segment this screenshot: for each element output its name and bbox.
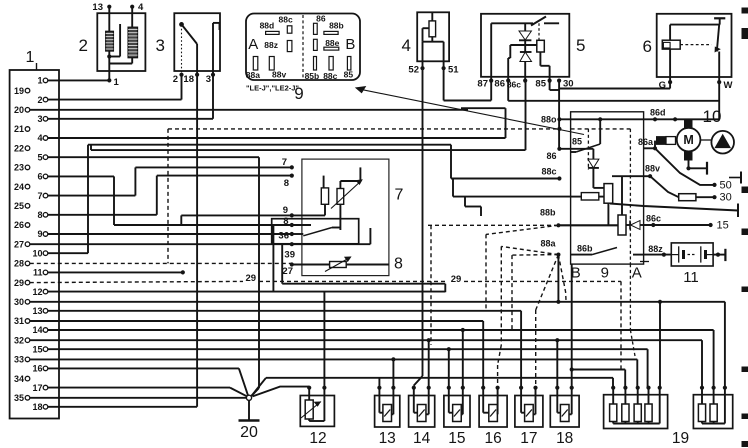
svg-text:88o: 88o	[541, 115, 557, 125]
wire ECU pin15 row	[48, 347, 648, 388]
solenoid and diode in relay 9	[558, 215, 643, 235]
resistor elements in unit 2	[106, 27, 138, 58]
switch inside box 8	[292, 228, 341, 236]
sensor unit 4	[402, 12, 450, 61]
wire ECU pin35 to ground point	[30, 397, 246, 399]
legend caption 9	[246, 84, 304, 104]
svg-text:86b: 86b	[577, 244, 593, 254]
relay5 pin 86c	[507, 79, 527, 90]
svg-text:W: W	[724, 80, 733, 91]
AFM wiper resistor	[331, 167, 362, 230]
relay5 pin 85	[535, 79, 551, 90]
resistor to terminal 30	[679, 192, 732, 204]
wire ECU pin17 to ground point	[48, 388, 247, 397]
wire relay5 86 to relay6 W	[508, 81, 719, 101]
svg-text:11: 11	[683, 269, 699, 286]
relay9 pin 88z	[644, 244, 672, 257]
svg-text:21: 21	[14, 124, 24, 134]
svg-text:10: 10	[32, 248, 42, 258]
svg-text:9: 9	[37, 229, 42, 239]
wire ECU pin10 to relay9 88c	[48, 145, 571, 254]
svg-text:15: 15	[717, 220, 729, 232]
svg-text:7: 7	[395, 187, 404, 204]
svg-text:19: 19	[672, 430, 689, 447]
svg-text:13: 13	[379, 430, 396, 447]
ground rail in relay 6	[670, 18, 725, 24]
dashed internal link to connector 19	[588, 129, 635, 356]
wire pin52 to injector 14	[414, 68, 423, 388]
wire relay5 85 jog	[550, 81, 560, 90]
temperature sensor 12	[300, 386, 334, 447]
svg-text:88c: 88c	[279, 14, 293, 24]
connector block 19 right	[672, 386, 733, 447]
svg-text:88v: 88v	[645, 164, 660, 174]
svg-text:14: 14	[413, 430, 431, 447]
svg-text:39: 39	[284, 250, 295, 261]
wire 39 inside AFM	[292, 228, 371, 244]
svg-text:2: 2	[79, 36, 88, 55]
pin 52 of unit 4	[408, 42, 424, 76]
svg-text:13: 13	[32, 306, 42, 316]
fuel pump motor 10	[677, 107, 722, 160]
control unit connector 1	[10, 49, 59, 419]
svg-text:5: 5	[37, 152, 42, 162]
svg-text:8: 8	[283, 216, 288, 227]
svg-text:14: 14	[32, 325, 42, 335]
svg-text:"LE-J","LE2-J": "LE-J","LE2-J"	[246, 84, 299, 93]
wire ECU pin6 staircase to AFM	[48, 176, 292, 225]
svg-text:29: 29	[246, 273, 257, 284]
svg-text:M: M	[683, 133, 693, 147]
injector 15	[444, 386, 470, 447]
connector block 19 left	[604, 386, 668, 429]
motor ground	[686, 160, 707, 175]
svg-text:86: 86	[494, 79, 505, 90]
terminal 13 of unit 2	[92, 2, 111, 31]
svg-text:15: 15	[32, 344, 42, 354]
wire relay5 30 to relay6 G	[559, 82, 670, 88]
svg-text:87: 87	[477, 79, 488, 90]
ballast resistor unit 2	[79, 13, 146, 71]
relay9 pin 88b	[540, 208, 561, 228]
svg-text:88d: 88d	[260, 21, 275, 31]
wire ECU pin11	[48, 270, 185, 274]
svg-text:36: 36	[278, 230, 289, 241]
svg-text:A: A	[632, 265, 642, 282]
svg-text:5: 5	[576, 36, 585, 55]
relay9 pin 86	[546, 147, 561, 161]
svg-text:15: 15	[448, 430, 465, 447]
svg-text:88a: 88a	[246, 70, 260, 80]
svg-text:27: 27	[282, 266, 293, 277]
arrow from relay 9 to legend	[356, 87, 584, 135]
wire 86a to terminal 50	[655, 148, 732, 191]
relay6 pin W	[717, 80, 732, 91]
svg-text:17: 17	[520, 430, 537, 447]
svg-text:9: 9	[601, 265, 609, 282]
connector 1 outer pins 19-35	[14, 86, 30, 403]
connector 1 inner pins 1-18	[32, 76, 47, 412]
svg-text:4: 4	[138, 2, 144, 13]
svg-text:35: 35	[14, 393, 24, 403]
wire ECU pin12 to injector 12	[48, 292, 446, 388]
svg-text:6: 6	[37, 172, 42, 182]
svg-text:9: 9	[294, 84, 303, 103]
wire ECU pin14 row	[48, 328, 714, 388]
svg-text:12: 12	[32, 287, 42, 297]
svg-text:31: 31	[14, 316, 24, 326]
relay 5 switch	[491, 17, 559, 41]
svg-text:30: 30	[720, 192, 732, 204]
dashed wire 29	[30, 273, 621, 285]
relay 5	[481, 14, 585, 77]
svg-text:13: 13	[92, 2, 103, 13]
svg-text:88a: 88a	[540, 239, 556, 249]
svg-text:3: 3	[156, 36, 165, 55]
svg-text:9: 9	[283, 205, 288, 216]
wire ECU pin9 to AFM 36	[48, 233, 292, 235]
svg-text:18: 18	[556, 430, 573, 447]
wire 86d to motor	[559, 108, 719, 122]
svg-text:86: 86	[316, 14, 326, 24]
svg-text:29: 29	[14, 278, 24, 288]
wire ECU pin16 to ground point	[48, 368, 248, 395]
svg-text:28: 28	[14, 259, 24, 269]
relay 6 switch contact	[715, 25, 720, 83]
svg-text:88c: 88c	[541, 167, 556, 177]
sensor box 8	[272, 219, 403, 273]
battery 11	[640, 243, 713, 286]
relay9 pin 86c to terminal 15	[644, 214, 729, 232]
svg-text:23: 23	[14, 163, 24, 173]
relay9 switch 85	[571, 119, 601, 152]
svg-text:8: 8	[284, 178, 289, 189]
svg-text:10: 10	[703, 107, 722, 126]
pins 2 18 3 of unit 3	[173, 73, 215, 85]
relay 5 coil	[508, 40, 549, 80]
svg-text:A: A	[248, 36, 258, 53]
relay9 pin 88o	[541, 115, 562, 125]
svg-text:88c: 88c	[323, 71, 337, 81]
svg-text:1: 1	[37, 76, 42, 86]
svg-text:2: 2	[37, 95, 42, 105]
relay 6	[643, 14, 732, 77]
dashed wires from 88b	[428, 225, 558, 345]
wire ECU pin2 to unit3 pin2	[48, 75, 182, 100]
svg-text:8: 8	[394, 256, 403, 273]
svg-text:18: 18	[32, 402, 42, 412]
legend side A pin symbols	[246, 14, 293, 80]
svg-text:B: B	[345, 36, 355, 53]
svg-text:7: 7	[282, 157, 287, 168]
wire ground point to sensors 12/13	[252, 378, 614, 397]
relay9 pin 88a	[540, 239, 593, 257]
wire relay5 86c drop	[525, 81, 527, 151]
svg-text:50: 50	[720, 179, 732, 191]
terminal 4 of unit 2	[130, 2, 144, 27]
svg-text:4: 4	[37, 133, 42, 143]
svg-text:85: 85	[572, 137, 582, 147]
relay5 pin 30	[557, 79, 574, 90]
relay pinout legend 9	[246, 14, 360, 81]
wire ECU pin33 row	[30, 357, 638, 387]
svg-text:1: 1	[114, 77, 120, 88]
svg-text:30: 30	[14, 297, 24, 307]
dashed fan from 88a	[498, 246, 566, 387]
svg-text:86c: 86c	[646, 214, 661, 224]
air flow meter 7	[302, 159, 404, 276]
svg-text:3: 3	[37, 114, 42, 124]
svg-text:29: 29	[451, 274, 462, 285]
fuse 86a to motor	[638, 137, 677, 151]
svg-text:19: 19	[14, 86, 24, 96]
svg-text:88v: 88v	[272, 69, 286, 79]
switching unit 3	[156, 13, 220, 71]
wire ECU pin30 ground row	[30, 300, 725, 388]
svg-text:32: 32	[14, 335, 24, 345]
terminal 1 of unit 2	[107, 24, 132, 88]
relay9 pin 88c	[541, 167, 561, 181]
svg-text:2: 2	[173, 74, 178, 85]
legend side B pin symbols	[305, 14, 354, 81]
element inside unit 4	[423, 12, 444, 41]
injector 16	[479, 386, 507, 447]
switch contacts inside unit 3	[179, 22, 219, 75]
wire relay9 B to injector18 and 19	[570, 264, 626, 388]
wire ECU pin4 bus	[48, 137, 506, 139]
ground point 20	[239, 395, 260, 441]
svg-text:16: 16	[32, 364, 42, 374]
pin 51 of unit 4	[442, 42, 460, 76]
injector 17	[515, 386, 543, 447]
wire ECU pin1 to unit 2	[48, 79, 110, 81]
AFM pin labels	[278, 157, 311, 277]
svg-text:85b: 85b	[305, 71, 320, 81]
dashed 29 drop to connector 19	[620, 281, 622, 369]
wire ECU pin27 to AFM 39	[30, 243, 292, 245]
svg-text:4: 4	[402, 36, 411, 55]
svg-text:18: 18	[183, 74, 194, 85]
wire ECU pin31 to injector 16	[30, 321, 483, 388]
wire ECU pin8 to AFM 8	[48, 176, 292, 215]
wire to 88v inside relay 9	[612, 176, 644, 215]
wire ECU pin32 row	[30, 338, 702, 388]
relay 9 coil	[604, 184, 613, 226]
switch A inside relay 9	[571, 248, 644, 255]
svg-text:85: 85	[535, 79, 546, 90]
svg-text:7: 7	[37, 191, 42, 201]
svg-text:88z: 88z	[648, 244, 663, 254]
svg-text:88b: 88b	[329, 21, 344, 31]
junction dashed at relay9	[557, 127, 561, 131]
svg-text:17: 17	[32, 383, 42, 393]
pump symbol	[701, 131, 734, 154]
wire drop to relay9 86	[558, 81, 560, 149]
wire ECU pin13 to injector 17	[48, 311, 521, 388]
injector 14	[409, 386, 435, 447]
svg-text:86: 86	[546, 151, 556, 161]
injector 18	[550, 386, 579, 447]
relay6 pin G	[659, 80, 673, 91]
temperature sensor in 8	[292, 257, 389, 272]
svg-text:86a: 86a	[638, 137, 654, 147]
wire ECU pin5 riser	[48, 157, 259, 396]
resistor in relay 9	[571, 193, 604, 200]
svg-text:34: 34	[14, 374, 24, 384]
wire ECU pin3 to unit3 pin3	[48, 75, 213, 119]
svg-text:16: 16	[484, 430, 501, 447]
wire ECU pin28 dashed	[30, 262, 292, 264]
svg-text:20: 20	[14, 105, 24, 115]
svg-text:88b: 88b	[540, 208, 556, 218]
svg-text:33: 33	[14, 355, 24, 365]
svg-text:20: 20	[240, 424, 258, 441]
svg-text:86d: 86d	[650, 108, 666, 118]
relay5 pin 87	[477, 23, 493, 89]
wire ECU pin20 bus	[30, 109, 468, 111]
svg-text:11: 11	[33, 268, 43, 278]
dashed wire LE2 via 129 row	[168, 129, 630, 264]
AFM potentiometer resistor	[292, 176, 329, 216]
svg-text:22: 22	[14, 143, 24, 153]
wire unit3 pin18 to ECU pin18	[48, 75, 197, 407]
riser pin4 to relay net	[461, 108, 506, 138]
svg-text:6: 6	[643, 37, 652, 56]
svg-text:26: 26	[14, 220, 24, 230]
relay5 pin 86	[494, 79, 510, 90]
injector 13	[375, 386, 400, 447]
diode in relay 9	[559, 149, 604, 188]
wire ECU pin7 to AFM 7	[48, 167, 292, 195]
svg-text:27: 27	[14, 239, 24, 249]
wire 88a to ground row	[557, 255, 559, 302]
svg-text:8: 8	[37, 210, 42, 220]
svg-text:25: 25	[14, 201, 24, 211]
page edge marks	[729, 8, 748, 448]
svg-text:51: 51	[448, 65, 459, 76]
wire pin51 to relay5 87	[444, 68, 492, 100]
svg-text:88z: 88z	[264, 40, 278, 50]
svg-text:85: 85	[344, 70, 354, 80]
wrap wires below box 8	[273, 225, 445, 292]
wire to right edge terminal	[610, 204, 738, 218]
relay 5 diodes	[519, 23, 532, 80]
relay 6 coil	[662, 25, 711, 83]
svg-text:3: 3	[206, 74, 211, 85]
wire relay6 W drop	[718, 82, 720, 119]
svg-text:12: 12	[309, 430, 326, 447]
relay9 pin 88v	[644, 164, 679, 198]
svg-text:1: 1	[26, 49, 35, 66]
svg-text:52: 52	[408, 65, 419, 76]
svg-text:88e: 88e	[325, 38, 339, 48]
svg-text:24: 24	[14, 182, 24, 192]
battery ground terminal	[713, 249, 725, 261]
main relay block 9	[571, 112, 644, 282]
